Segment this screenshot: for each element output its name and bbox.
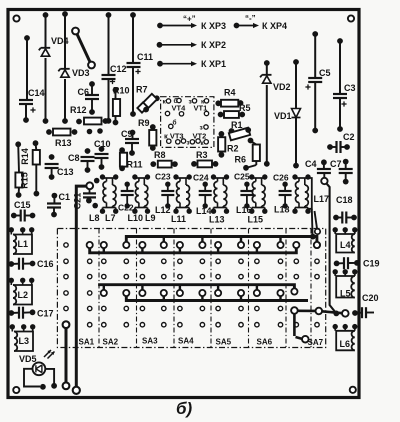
switch contacts row 1 xyxy=(64,242,320,248)
label C9 xyxy=(121,129,133,139)
label R7 xyxy=(136,85,148,95)
switch divider 1 xyxy=(98,229,100,348)
label C13 xyxy=(57,167,74,177)
switch SA1 wiper trace xyxy=(63,321,70,389)
pad left of L8 top xyxy=(94,178,100,184)
label R2 xyxy=(227,144,239,154)
svg-text:SA7: SA7 xyxy=(308,338,324,347)
svg-text:К ХР1: К ХР1 xyxy=(201,59,226,69)
resistor R9 xyxy=(149,124,156,151)
label C25 xyxy=(234,172,250,182)
diode VD1 with wire xyxy=(292,59,301,168)
inductor pair L18/L17 xyxy=(292,174,310,214)
label L1 xyxy=(18,239,29,249)
resistor R5 xyxy=(218,111,245,118)
svg-text:SA6: SA6 xyxy=(257,338,273,347)
bus trace lower row1 xyxy=(90,248,297,253)
svg-text:C8: C8 xyxy=(68,153,80,163)
label C23 xyxy=(155,172,171,182)
label L18 xyxy=(274,205,290,215)
svg-text:L13: L13 xyxy=(209,215,225,225)
inductor L3 xyxy=(10,324,36,351)
mounting hole bottom-left xyxy=(13,387,19,393)
capacitor C12 xyxy=(102,12,116,124)
label L15 xyxy=(248,215,264,225)
capacitor C22 xyxy=(121,182,134,209)
label C18 xyxy=(336,195,353,205)
svg-text:L1: L1 xyxy=(18,239,29,249)
svg-text:б: б xyxy=(173,119,177,127)
label K XP4 xyxy=(262,21,287,31)
capacitor C21 xyxy=(83,182,96,203)
svg-text:C9: C9 xyxy=(121,129,133,139)
transistor area box xyxy=(161,97,214,148)
svg-text:R7: R7 xyxy=(136,85,148,95)
switch divider 6 xyxy=(285,229,287,348)
label C4 xyxy=(305,159,317,169)
capacitor C11 xyxy=(127,12,141,117)
transistor VT3 pins xyxy=(167,119,186,145)
LED light arrows xyxy=(44,350,55,359)
svg-text:L4: L4 xyxy=(340,240,351,250)
svg-text:VD2: VD2 xyxy=(273,82,291,92)
svg-text:L8: L8 xyxy=(89,213,100,223)
inductor L5 xyxy=(333,269,358,297)
capacitor C18 xyxy=(333,212,357,224)
svg-text:к VT3: к VT3 xyxy=(164,132,184,141)
label VD5 xyxy=(19,354,37,364)
label L3 xyxy=(19,336,30,346)
label R3 xyxy=(196,150,208,160)
svg-text:SA1: SA1 xyxy=(79,338,95,347)
svg-text:L10: L10 xyxy=(128,213,144,223)
wire jumper top-left xyxy=(72,28,95,69)
svg-text:C5: C5 xyxy=(319,68,331,78)
svg-text:L5: L5 xyxy=(340,289,351,299)
svg-text:C24: C24 xyxy=(193,173,209,183)
svg-text:L6: L6 xyxy=(340,339,351,349)
svg-text:C18: C18 xyxy=(336,195,353,205)
label C26 xyxy=(273,173,289,183)
switch contact dots row y=308.5 xyxy=(64,306,283,310)
svg-text:к: к xyxy=(201,141,204,147)
switch contacts row 4 xyxy=(64,288,298,296)
svg-text:з: з xyxy=(187,141,190,147)
svg-text:C6: C6 xyxy=(78,87,90,97)
resistor R3 xyxy=(191,161,218,168)
svg-text:L11: L11 xyxy=(171,214,186,224)
label VD1 xyxy=(274,111,292,121)
svg-text:R11: R11 xyxy=(127,160,143,170)
svg-text:L3: L3 xyxy=(19,336,30,346)
connector lead K XP4 xyxy=(234,23,259,29)
label L8 xyxy=(89,213,100,223)
switch contact dots row y=276.6 xyxy=(64,274,319,278)
capacitor C25 xyxy=(240,182,253,209)
svg-text:L9: L9 xyxy=(145,213,156,223)
svg-text:C10: C10 xyxy=(94,139,111,149)
transistor VT1 pins xyxy=(189,98,209,115)
label VT2 xyxy=(193,132,207,141)
svg-text:“+”: “+” xyxy=(183,15,196,24)
label L10 xyxy=(128,213,144,223)
svg-text:R14: R14 xyxy=(20,148,30,165)
label L4 xyxy=(340,240,351,250)
resistor R7 xyxy=(137,94,159,113)
connector lead K XP2 xyxy=(157,42,197,48)
label VD2 xyxy=(273,82,291,92)
capacitor C5 xyxy=(305,31,322,133)
svg-text:VT4: VT4 xyxy=(172,104,187,113)
svg-text:R2: R2 xyxy=(227,144,239,154)
svg-text:К ХР4: К ХР4 xyxy=(262,21,287,31)
inductor pair L8/L7 xyxy=(100,174,119,214)
label K XP3 xyxy=(201,21,226,31)
switch contact dots row y=324.7 xyxy=(88,323,320,327)
label C16 xyxy=(37,259,54,269)
capacitor C4 xyxy=(317,159,331,184)
polarity mark minus xyxy=(245,14,256,23)
figure label b) xyxy=(176,399,193,418)
resistor R15 xyxy=(15,141,22,198)
label C7 xyxy=(330,159,342,169)
svg-text:C23: C23 xyxy=(155,172,171,182)
inductor pair L10/L9 xyxy=(132,174,150,214)
capacitor C3 xyxy=(333,38,347,132)
svg-text:SA3: SA3 xyxy=(142,337,158,346)
svg-text:К ХР2: К ХР2 xyxy=(201,40,226,50)
resistor R12 xyxy=(76,118,108,125)
wire L17 right to contact xyxy=(315,211,321,234)
svg-text:R12: R12 xyxy=(70,105,87,115)
label C10 xyxy=(94,139,111,149)
label L16 xyxy=(236,205,252,215)
svg-text:C1: C1 xyxy=(59,192,71,202)
svg-text:C4: C4 xyxy=(305,159,317,169)
svg-text:R15: R15 xyxy=(20,172,30,189)
label K XP1 xyxy=(201,59,226,69)
label C5 xyxy=(319,68,331,78)
label C24 xyxy=(193,173,209,183)
svg-text:L2: L2 xyxy=(18,290,29,300)
inductor pair L12/L11 xyxy=(173,174,192,214)
connector lead K XP1 xyxy=(157,61,197,67)
inductor L6 xyxy=(333,324,358,350)
svg-text:C7: C7 xyxy=(330,159,342,169)
svg-text:C3: C3 xyxy=(344,83,356,93)
resistor R4 xyxy=(215,100,243,107)
resistor R14 xyxy=(33,140,40,196)
svg-text:C13: C13 xyxy=(57,167,74,177)
svg-text:VD5: VD5 xyxy=(19,354,37,364)
label L5 xyxy=(340,289,351,299)
svg-text:VT2: VT2 xyxy=(193,132,207,141)
label R15 xyxy=(20,172,30,189)
resistor R11 xyxy=(119,147,127,171)
label SA7 xyxy=(308,338,324,347)
label R11 xyxy=(127,160,143,170)
label C12 xyxy=(110,64,127,74)
inductor L2 xyxy=(9,278,35,305)
svg-text:VD3: VD3 xyxy=(72,68,90,78)
switch divider 4 xyxy=(210,229,212,348)
inductor L17 cell extension xyxy=(308,178,312,209)
capacitor C14 xyxy=(19,35,36,123)
label R6 xyxy=(235,155,247,165)
svg-text:C11: C11 xyxy=(137,52,153,62)
capacitor C19 xyxy=(334,257,360,269)
label C8 xyxy=(68,153,80,163)
capacitor C16 xyxy=(8,258,35,270)
resistor R8 xyxy=(150,161,177,168)
switch matrix area box xyxy=(57,229,325,348)
label C17 xyxy=(37,309,54,319)
svg-text:“-”: “-” xyxy=(245,14,256,23)
svg-text:C26: C26 xyxy=(273,173,289,183)
label VT4 xyxy=(172,104,187,113)
label SA2 xyxy=(103,338,119,347)
svg-text:C17: C17 xyxy=(37,309,54,319)
inductor L1 xyxy=(9,227,35,254)
connector lead K XP3 xyxy=(157,23,197,29)
label SA5 xyxy=(216,338,232,347)
resistor R13 xyxy=(46,129,77,136)
ground trace from C21 xyxy=(73,186,87,394)
capacitor C24 xyxy=(199,182,212,209)
switch divider 5 xyxy=(248,229,250,348)
label L17 xyxy=(314,194,330,204)
svg-text:К ХР3: К ХР3 xyxy=(201,21,226,31)
label VD3 xyxy=(72,68,90,78)
mounting hole bottom-right xyxy=(350,387,356,393)
wire L17 to switch area xyxy=(310,209,316,240)
capacitor C23 xyxy=(161,182,174,209)
svg-text:VT1: VT1 xyxy=(194,104,208,113)
svg-text:L7: L7 xyxy=(105,213,116,223)
label R5 xyxy=(239,103,251,113)
label L6 xyxy=(340,339,351,349)
svg-text:C22: C22 xyxy=(118,203,134,213)
capacitor C17 xyxy=(8,307,35,319)
svg-text:R4: R4 xyxy=(224,88,236,98)
inductor pair L14/L13 xyxy=(211,174,229,214)
capacitor C15 xyxy=(11,210,36,222)
label C22 xyxy=(118,203,134,213)
svg-text:C16: C16 xyxy=(37,259,54,269)
svg-text:L15: L15 xyxy=(248,215,264,225)
switch divider 2 xyxy=(136,229,138,348)
label R13 xyxy=(55,138,72,148)
bus trace lower row4 xyxy=(126,296,308,301)
label L13 xyxy=(209,215,225,225)
LED VD5 xyxy=(24,362,57,389)
svg-text:R5: R5 xyxy=(239,103,251,113)
svg-text:R9: R9 xyxy=(138,118,150,128)
capacitor C9 xyxy=(125,130,139,156)
label C19 xyxy=(363,259,380,269)
polarity mark plus xyxy=(183,15,196,24)
inductor pair L16/L15 xyxy=(249,174,267,214)
pad left of L8 bottom xyxy=(92,203,98,209)
capacitor C10 xyxy=(95,146,109,170)
capacitor C6 xyxy=(85,81,99,115)
resistor R1 xyxy=(229,127,252,140)
label C14 xyxy=(28,88,45,98)
label C15 xyxy=(14,200,31,210)
svg-text:C12: C12 xyxy=(110,64,127,74)
switch divider 3 xyxy=(173,229,175,348)
label SA6 xyxy=(257,338,273,347)
label R1 xyxy=(231,120,243,130)
svg-text:R6: R6 xyxy=(235,155,247,165)
capacitor C8 xyxy=(81,148,95,173)
svg-text:R1: R1 xyxy=(231,120,243,130)
label L2 xyxy=(18,290,29,300)
transistor VT4 pins xyxy=(163,97,184,116)
label VD4 xyxy=(51,36,69,46)
diode VD2 with wire xyxy=(260,60,271,167)
label R12 xyxy=(70,105,87,115)
label VT3 xyxy=(164,132,184,141)
resistor R6 xyxy=(243,138,260,171)
label L12 xyxy=(155,205,171,215)
svg-text:SA4: SA4 xyxy=(178,337,194,346)
svg-text:C15: C15 xyxy=(14,200,31,210)
label K XP2 xyxy=(201,40,226,50)
svg-text:C2: C2 xyxy=(343,132,355,142)
svg-text:SA2: SA2 xyxy=(103,338,119,347)
svg-text:R3: R3 xyxy=(196,150,208,160)
trace from C4 down right side xyxy=(327,184,337,314)
switch contact dots row y=261.3 xyxy=(64,259,319,263)
label L14 xyxy=(196,206,212,216)
label R10 xyxy=(113,86,130,96)
label C11 xyxy=(137,52,153,62)
label L7 xyxy=(105,213,116,223)
label R8 xyxy=(154,150,166,160)
svg-text:R10: R10 xyxy=(113,86,130,96)
resistor R2 xyxy=(218,131,225,158)
svg-text:VD1: VD1 xyxy=(274,111,292,121)
inductor L4 xyxy=(333,227,358,252)
label C6 xyxy=(78,87,90,97)
label L9 xyxy=(145,213,156,223)
switch SA7 wiper trace xyxy=(291,307,349,342)
label C3 xyxy=(344,83,356,93)
svg-text:R13: R13 xyxy=(55,138,72,148)
mounting hole top-left xyxy=(13,15,19,21)
via pads below R12 xyxy=(87,128,103,134)
switch divider 7 xyxy=(310,229,312,348)
transistor VT2 pins xyxy=(187,125,209,147)
label R4 xyxy=(224,88,236,98)
capacitor C13 xyxy=(45,154,59,180)
diode VD3 with wire xyxy=(58,11,69,124)
label R9 xyxy=(138,118,150,128)
svg-text:C14: C14 xyxy=(28,88,45,98)
bus trace upper row1 xyxy=(126,237,317,243)
svg-text:SA5: SA5 xyxy=(216,338,232,347)
label SA1 xyxy=(79,338,95,347)
svg-text:R8: R8 xyxy=(154,150,166,160)
label R14 xyxy=(20,148,30,165)
capacitor C2 xyxy=(327,141,350,153)
svg-text:L17: L17 xyxy=(314,194,330,204)
diode VD4 with wire xyxy=(39,12,50,124)
svg-text:б): б) xyxy=(176,399,193,418)
label SA3 xyxy=(142,337,158,346)
svg-text:C25: C25 xyxy=(234,172,250,182)
label C21 xyxy=(73,193,83,210)
resistor R10 xyxy=(113,87,121,125)
label SA4 xyxy=(178,337,194,346)
capacitor C1 xyxy=(47,193,61,218)
bus trace upper row4 xyxy=(98,285,294,290)
capacitor C20 xyxy=(352,307,374,318)
label C20 xyxy=(362,293,379,303)
svg-text:C19: C19 xyxy=(363,259,380,269)
svg-text:C20: C20 xyxy=(362,293,379,303)
label C2 xyxy=(343,132,355,142)
capacitor C7 xyxy=(339,159,353,185)
label L11 xyxy=(171,214,186,224)
label VT1 xyxy=(194,104,208,113)
mounting hole top-right xyxy=(348,15,354,21)
label C1 xyxy=(59,192,71,202)
capacitor C26 xyxy=(279,182,292,209)
